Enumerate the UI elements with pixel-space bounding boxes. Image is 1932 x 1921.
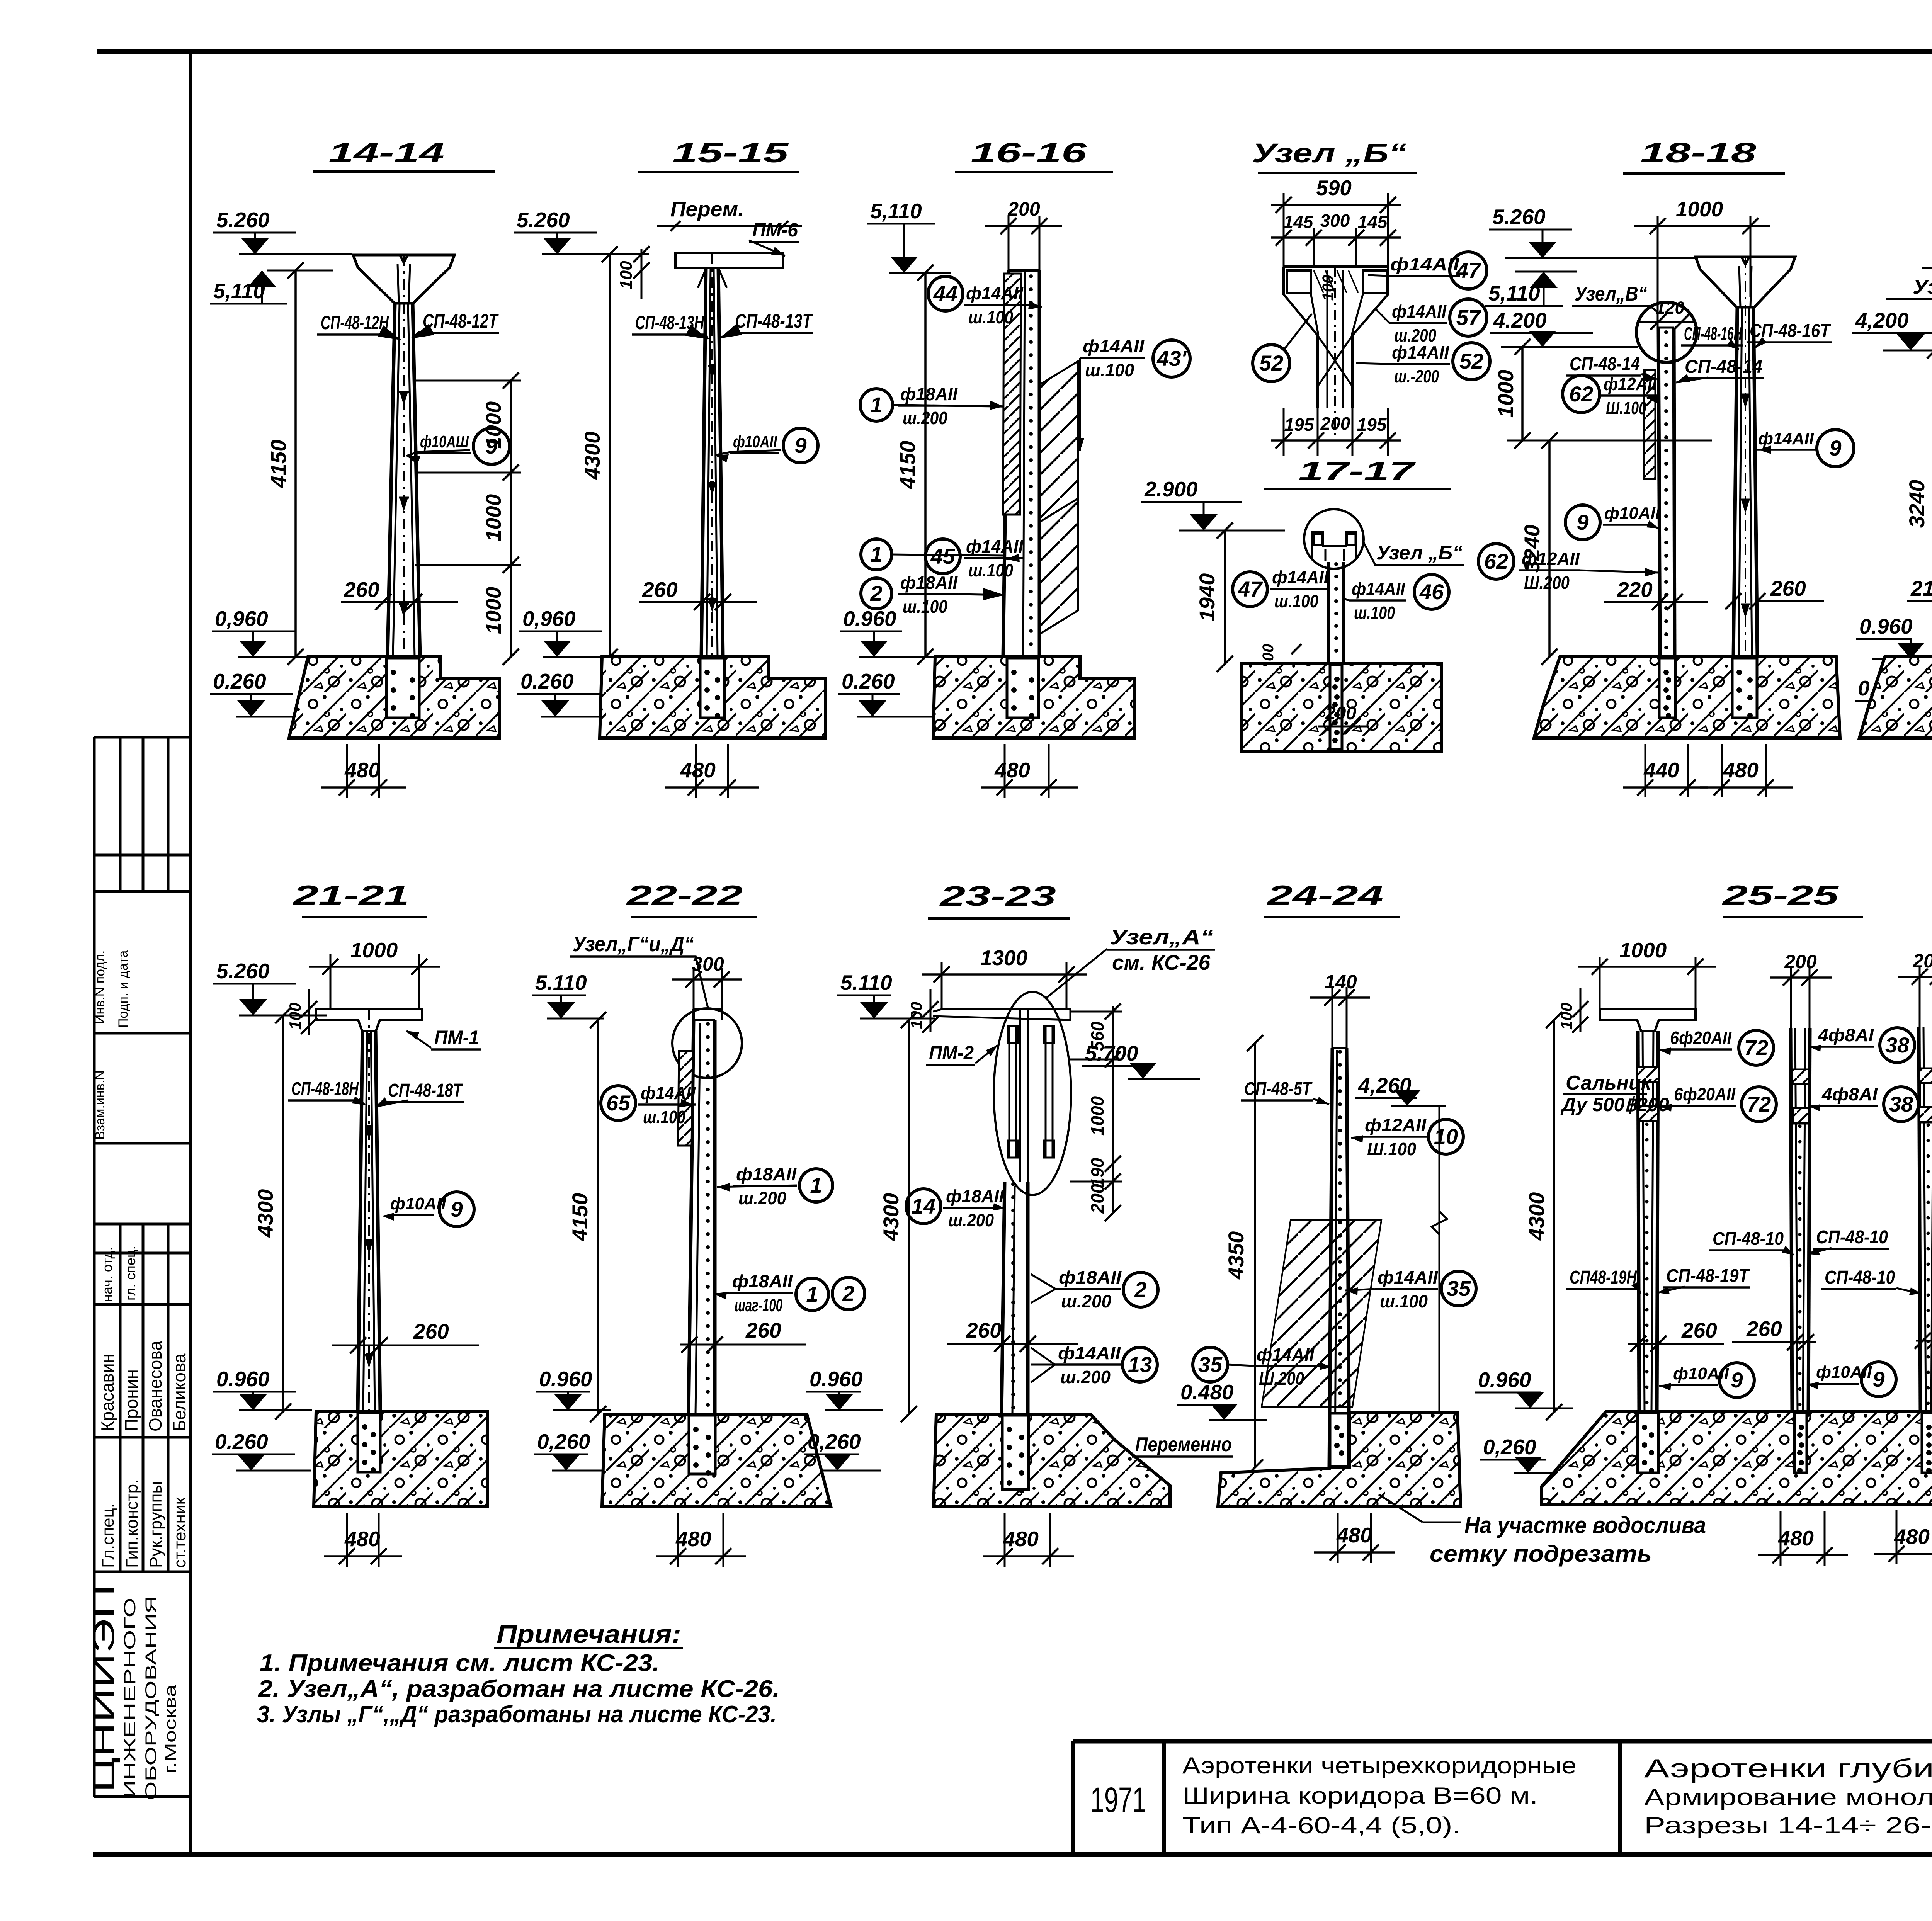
svg-text:Сальник: Сальник — [1566, 1072, 1652, 1094]
svg-text:ф18АII: ф18АII — [900, 573, 958, 593]
svg-text:ф14АII: ф14АII — [1272, 567, 1329, 587]
svg-text:Узел„А“: Узел„А“ — [1110, 925, 1214, 949]
svg-text:260: 260 — [1770, 576, 1806, 600]
svg-text:100: 100 — [1557, 1003, 1575, 1030]
svg-text:Ш.100: Ш.100 — [1367, 1139, 1416, 1159]
svg-text:200: 200 — [1320, 413, 1350, 433]
svg-text:СП-48-10: СП-48-10 — [1713, 1229, 1784, 1249]
svg-text:ИНЖЕНЕРНОГО: ИНЖЕНЕРНОГО — [121, 1598, 139, 1799]
svg-text:ф18АII: ф18АII — [1059, 1267, 1122, 1287]
svg-text:14: 14 — [912, 1194, 935, 1218]
svg-text:62: 62 — [1484, 549, 1508, 573]
svg-text:ф18АII: ф18АII — [946, 1186, 1004, 1206]
svg-text:Подп. и дата: Подп. и дата — [116, 950, 131, 1028]
svg-text:СП-48-12Т: СП-48-12Т — [423, 310, 499, 332]
svg-text:0,260: 0,260 — [537, 1430, 590, 1453]
svg-text:0,960: 0,960 — [522, 607, 576, 631]
svg-text:62: 62 — [1569, 382, 1593, 406]
svg-text:260: 260 — [344, 578, 379, 602]
svg-text:35: 35 — [1198, 1352, 1223, 1377]
svg-text:16-16: 16-16 — [971, 138, 1087, 168]
svg-text:ПМ-1: ПМ-1 — [434, 1027, 479, 1048]
svg-text:480: 480 — [344, 1527, 380, 1551]
svg-text:480: 480 — [1778, 1526, 1814, 1550]
svg-text:Гл.спец.: Гл.спец. — [99, 1503, 117, 1568]
svg-text:0.960: 0.960 — [810, 1367, 863, 1391]
svg-text:ф18АII: ф18АII — [736, 1164, 797, 1184]
svg-text:195: 195 — [1357, 415, 1387, 435]
svg-text:52: 52 — [1259, 351, 1283, 375]
svg-text:ф12АII: ф12АII — [1604, 374, 1657, 394]
svg-text:5.260: 5.260 — [1492, 205, 1546, 229]
svg-text:260: 260 — [413, 1319, 449, 1343]
svg-text:ф10АШ: ф10АШ — [420, 432, 469, 451]
svg-text:Аэротенки четырехкоридорные: Аэротенки четырехкоридорные — [1182, 1753, 1577, 1778]
svg-text:ф14АII: ф14АII — [1392, 342, 1449, 362]
svg-text:480: 480 — [1003, 1527, 1039, 1551]
svg-text:ф14АII: ф14АII — [1758, 429, 1814, 448]
svg-text:ф14АII: ф14АII — [966, 283, 1024, 303]
svg-text:Узел„Г“и„Д“: Узел„Г“и„Д“ — [573, 932, 694, 956]
svg-text:260: 260 — [1746, 1317, 1782, 1341]
svg-text:6ф20АII: 6ф20АII — [1674, 1084, 1736, 1104]
svg-text:ПМ-6: ПМ-6 — [752, 219, 798, 241]
svg-text:57: 57 — [1456, 305, 1481, 330]
svg-text:5.260: 5.260 — [517, 208, 570, 232]
svg-text:Разрезы 14-14÷ 26-26. Узлы: Разрезы 14-14÷ 26-26. Узлы „Б“, „В“ — [1644, 1812, 1932, 1838]
svg-text:0.960: 0.960 — [1478, 1368, 1531, 1392]
svg-text:5.110: 5.110 — [840, 971, 892, 994]
svg-text:Беликова: Беликова — [169, 1353, 189, 1431]
svg-text:0.960: 0.960 — [216, 1367, 270, 1391]
svg-text:Инв.N подл.: Инв.N подл. — [93, 950, 107, 1024]
svg-text:Армирование монолитных участ: Армирование монолитных участков стен. — [1644, 1784, 1932, 1810]
svg-text:220: 220 — [1617, 578, 1653, 602]
svg-text:ш.200: ш.200 — [738, 1188, 786, 1208]
svg-text:Узел „Б“: Узел „Б“ — [1376, 542, 1463, 564]
svg-text:4ф8АI: 4ф8АI — [1821, 1084, 1878, 1104]
svg-text:1000: 1000 — [1493, 370, 1518, 418]
svg-text:5,110: 5,110 — [1488, 281, 1540, 305]
svg-text:5.700: 5.700 — [1085, 1041, 1138, 1065]
svg-text:2: 2 — [1134, 1277, 1146, 1302]
svg-text:22-22: 22-22 — [626, 880, 743, 911]
svg-text:Ш.200: Ш.200 — [1259, 1368, 1304, 1389]
svg-text:46: 46 — [1419, 580, 1444, 604]
svg-text:СП-48-19Т: СП-48-19Т — [1666, 1266, 1750, 1286]
svg-text:0.260: 0.260 — [213, 669, 266, 693]
svg-text:Гип.констр.: Гип.констр. — [122, 1479, 141, 1568]
svg-text:17-17: 17-17 — [1298, 456, 1416, 486]
svg-text:ф14АII: ф14АII — [1083, 336, 1145, 356]
svg-text:65: 65 — [606, 1091, 631, 1115]
svg-text:3240: 3240 — [1905, 480, 1929, 528]
svg-text:ш.100: ш.100 — [1085, 360, 1134, 380]
svg-text:100: 100 — [1320, 275, 1337, 301]
svg-text:145: 145 — [1358, 212, 1388, 232]
svg-text:ф10АII: ф10АII — [1604, 504, 1660, 523]
svg-text:260: 260 — [745, 1318, 781, 1342]
svg-text:47: 47 — [1238, 577, 1263, 601]
svg-text:52: 52 — [1459, 349, 1483, 373]
svg-text:ш.200: ш.200 — [1061, 1291, 1111, 1311]
svg-text:ш.100: ш.100 — [1380, 1291, 1428, 1311]
svg-text:нач. отд.: нач. отд. — [99, 1247, 115, 1302]
svg-text:4300: 4300 — [580, 432, 604, 480]
svg-text:СП-48-14: СП-48-14 — [1570, 354, 1640, 374]
svg-text:ф14АII: ф14АII — [1378, 1267, 1438, 1287]
svg-text:200: 200 — [1912, 950, 1932, 972]
svg-text:43': 43' — [1156, 346, 1187, 371]
svg-text:4.200: 4.200 — [1493, 308, 1547, 332]
svg-text:0.960: 0.960 — [539, 1367, 592, 1391]
svg-text:72: 72 — [1747, 1092, 1771, 1116]
svg-text:Пронин: Пронин — [121, 1369, 141, 1431]
svg-text:ш.200: ш.200 — [948, 1210, 994, 1230]
svg-text:23-23: 23-23 — [939, 881, 1056, 912]
svg-text:СП-48-16Н: СП-48-16Н — [1684, 324, 1742, 344]
svg-text:9: 9 — [794, 433, 806, 457]
svg-text:ф12АII: ф12АII — [1365, 1115, 1427, 1135]
svg-text:СП-48-18Т: СП-48-18Т — [388, 1080, 463, 1101]
svg-text:25-25: 25-25 — [1721, 880, 1839, 911]
svg-text:ЦНИИЭП: ЦНИИЭП — [87, 1584, 121, 1793]
svg-text:0.480: 0.480 — [1180, 1380, 1234, 1404]
svg-text:260: 260 — [642, 578, 678, 602]
svg-text:35: 35 — [1447, 1276, 1471, 1300]
svg-text:480: 480 — [1336, 1523, 1372, 1547]
svg-text:24-24: 24-24 — [1266, 880, 1383, 911]
svg-text:4150: 4150 — [568, 1193, 592, 1242]
svg-text:1300: 1300 — [980, 946, 1028, 970]
svg-text:0,260: 0,260 — [1483, 1435, 1536, 1459]
svg-text:Аэротенки глубиной 4,4м.: Аэротенки глубиной 4,4м. — [1644, 1754, 1932, 1783]
svg-text:15-15: 15-15 — [672, 138, 789, 168]
svg-text:ш.100: ш.100 — [968, 307, 1013, 327]
svg-text:4,200: 4,200 — [1855, 308, 1909, 332]
svg-text:5,110: 5,110 — [213, 279, 265, 303]
svg-text:1: 1 — [810, 1173, 822, 1197]
svg-text:ш.100: ш.100 — [1354, 603, 1395, 623]
svg-text:г.Москва: г.Москва — [161, 1684, 179, 1773]
svg-text:10: 10 — [1434, 1124, 1458, 1149]
svg-text:38: 38 — [1889, 1092, 1913, 1116]
svg-text:Ованесова: Ованесова — [145, 1341, 165, 1431]
svg-text:ф10АII: ф10АII — [733, 432, 777, 451]
svg-text:260: 260 — [966, 1318, 1002, 1342]
svg-text:0,960: 0,960 — [215, 607, 268, 631]
svg-text:Красавин: Красавин — [97, 1353, 117, 1431]
svg-text:195: 195 — [1284, 415, 1315, 435]
svg-text:5.260: 5.260 — [216, 959, 270, 983]
svg-text:480: 480 — [680, 758, 716, 782]
svg-text:ОБОРУДОВАНИЯ: ОБОРУДОВАНИЯ — [143, 1596, 160, 1800]
svg-text:ф18АII: ф18АII — [900, 384, 958, 404]
svg-text:9: 9 — [1577, 510, 1588, 534]
svg-text:1. Примечания см. лист КС-23: 1. Примечания см. лист КС-23. — [260, 1650, 660, 1676]
svg-text:3. Узлы „Г“,„Д“ разработаны н: 3. Узлы „Г“,„Д“ разработаны на листе КС-… — [257, 1701, 777, 1728]
svg-text:На участке водослива: На участке водослива — [1464, 1512, 1706, 1538]
svg-text:ш.-200: ш.-200 — [1394, 366, 1439, 386]
svg-text:Узел„В“: Узел„В“ — [1913, 276, 1932, 298]
svg-text:13: 13 — [1128, 1352, 1152, 1377]
svg-text:2. Узел„А“, разработан на ли: 2. Узел„А“, разработан на листе КС-26. — [258, 1676, 780, 1702]
svg-text:9: 9 — [451, 1197, 463, 1221]
svg-text:480: 480 — [994, 758, 1030, 782]
svg-text:6ф20АII: 6ф20АII — [1670, 1028, 1732, 1048]
svg-text:СП-48-10: СП-48-10 — [1825, 1267, 1895, 1288]
svg-text:Узел „Б“: Узел „Б“ — [1252, 138, 1406, 168]
svg-text:ф14АII: ф14АII — [966, 536, 1024, 556]
svg-text:120: 120 — [1655, 298, 1684, 318]
svg-text:ш.100: ш.100 — [1274, 591, 1318, 611]
svg-text:ш.100: ш.100 — [968, 560, 1013, 580]
svg-text:СП-48-12Н: СП-48-12Н — [321, 312, 389, 333]
svg-text:1000: 1000 — [1676, 197, 1723, 221]
svg-text:9: 9 — [1731, 1368, 1743, 1392]
svg-text:18-18: 18-18 — [1640, 138, 1756, 168]
svg-text:1000: 1000 — [1619, 938, 1667, 962]
svg-text:Взам.инв.N: Взам.инв.N — [93, 1070, 107, 1140]
svg-text:38: 38 — [1885, 1033, 1910, 1057]
svg-text:1: 1 — [870, 393, 882, 417]
svg-text:480: 480 — [1723, 758, 1759, 782]
svg-text:5.260: 5.260 — [216, 208, 270, 232]
svg-text:1: 1 — [870, 542, 882, 566]
svg-text:100: 100 — [617, 261, 636, 289]
svg-text:шаг-100: шаг-100 — [735, 1295, 782, 1315]
svg-text:ш.200: ш.200 — [1060, 1367, 1111, 1387]
svg-text:210: 210 — [1910, 576, 1932, 600]
svg-text:СП-48-18Н: СП-48-18Н — [291, 1079, 359, 1099]
svg-text:1000: 1000 — [481, 494, 505, 541]
svg-text:Ду 500฿200: Ду 500฿200 — [1560, 1094, 1669, 1115]
svg-text:480: 480 — [1894, 1525, 1930, 1549]
svg-text:сетку подрезать: сетку подрезать — [1430, 1541, 1652, 1567]
svg-text:ф18АII: ф18АII — [732, 1271, 793, 1291]
svg-text:ф14АII: ф14АII — [1352, 579, 1405, 599]
svg-text:2: 2 — [870, 581, 882, 605]
svg-text:14-14: 14-14 — [328, 138, 444, 168]
svg-text:200: 200 — [1784, 951, 1817, 972]
svg-text:2.900: 2.900 — [1144, 477, 1198, 501]
svg-text:ф12АII: ф12АII — [1522, 549, 1580, 569]
svg-text:5,110: 5,110 — [870, 199, 922, 223]
svg-text:4150: 4150 — [266, 440, 291, 488]
svg-text:Примечания:: Примечания: — [497, 1620, 681, 1648]
svg-text:ПМ-2: ПМ-2 — [929, 1042, 974, 1064]
svg-text:1000: 1000 — [481, 401, 505, 449]
svg-text:СП48-19Н: СП48-19Н — [1570, 1267, 1637, 1288]
svg-text:ст.техник: ст.техник — [170, 1497, 189, 1568]
svg-text:145: 145 — [1284, 212, 1314, 232]
svg-text:9: 9 — [1872, 1367, 1884, 1391]
svg-text:200: 200 — [1007, 198, 1040, 220]
svg-text:1: 1 — [806, 1282, 818, 1306]
svg-text:Узел„В“: Узел„В“ — [1575, 283, 1647, 305]
svg-text:Рук.группы: Рук.группы — [146, 1481, 165, 1568]
svg-text:4350: 4350 — [1224, 1231, 1248, 1280]
svg-text:4150: 4150 — [895, 441, 920, 490]
svg-text:200: 200 — [1087, 1183, 1107, 1214]
svg-text:ф14АII: ф14АII — [1257, 1345, 1315, 1365]
svg-text:45: 45 — [930, 544, 955, 568]
svg-text:100: 100 — [907, 1002, 925, 1029]
svg-text:1940: 1940 — [1195, 573, 1219, 622]
svg-text:72: 72 — [1744, 1035, 1768, 1060]
svg-text:0,260: 0,260 — [808, 1430, 861, 1453]
svg-text:5.110: 5.110 — [535, 971, 587, 994]
svg-text:ш.100: ш.100 — [903, 597, 947, 617]
svg-text:гл. спец.: гл. спец. — [122, 1246, 138, 1301]
svg-text:0.260: 0.260 — [520, 669, 574, 693]
svg-text:300: 300 — [1320, 211, 1350, 231]
svg-text:44: 44 — [933, 281, 957, 306]
svg-text:9: 9 — [1829, 436, 1841, 460]
svg-text:140: 140 — [1325, 971, 1357, 993]
svg-text:1000: 1000 — [350, 938, 398, 962]
svg-text:480: 480 — [675, 1527, 711, 1551]
svg-text:200: 200 — [1325, 703, 1356, 724]
svg-text:1000: 1000 — [481, 586, 505, 634]
svg-text:480: 480 — [344, 758, 380, 782]
svg-text:47: 47 — [1456, 258, 1481, 282]
svg-text:0.260: 0.260 — [215, 1430, 268, 1453]
svg-text:СП-48-14: СП-48-14 — [1685, 357, 1762, 377]
svg-text:Перем.: Перем. — [670, 197, 744, 221]
svg-text:4300: 4300 — [879, 1193, 903, 1242]
svg-text:190: 190 — [1087, 1158, 1107, 1187]
svg-text:2: 2 — [842, 1281, 854, 1306]
svg-text:0.960: 0.960 — [843, 607, 896, 631]
svg-text:0.960: 0.960 — [1859, 614, 1913, 638]
svg-text:Тип А-4-60-4,4 (5,0).: Тип А-4-60-4,4 (5,0). — [1182, 1812, 1461, 1838]
svg-text:СП-48-10: СП-48-10 — [1816, 1227, 1888, 1248]
svg-text:590: 590 — [1316, 176, 1352, 200]
svg-text:260: 260 — [1681, 1318, 1717, 1342]
svg-text:300: 300 — [692, 953, 724, 975]
svg-text:ф14АII: ф14АII — [1058, 1343, 1121, 1363]
svg-text:Переменно: Переменно — [1135, 1433, 1232, 1456]
svg-text:4300: 4300 — [1524, 1192, 1549, 1241]
svg-text:1971: 1971 — [1090, 1780, 1146, 1820]
svg-text:4300: 4300 — [253, 1189, 277, 1238]
svg-text:Ш.100: Ш.100 — [1606, 398, 1646, 418]
svg-text:ф14АII: ф14АII — [641, 1083, 696, 1103]
svg-text:1000: 1000 — [1087, 1096, 1107, 1136]
svg-text:СП-48-13Т: СП-48-13Т — [735, 310, 813, 332]
svg-text:Ширина коридора В=60 м.: Ширина коридора В=60 м. — [1182, 1783, 1538, 1809]
svg-text:440: 440 — [1643, 758, 1679, 782]
svg-text:4ф8АI: 4ф8АI — [1818, 1025, 1874, 1045]
svg-text:ш.100: ш.100 — [643, 1107, 685, 1127]
svg-text:0.260: 0.260 — [842, 669, 895, 693]
svg-text:21-21: 21-21 — [292, 880, 409, 911]
svg-text:ф14АII: ф14АII — [1392, 301, 1447, 321]
svg-text:Ш.200: Ш.200 — [1524, 573, 1570, 593]
svg-text:см. КС-26: см. КС-26 — [1112, 950, 1211, 974]
